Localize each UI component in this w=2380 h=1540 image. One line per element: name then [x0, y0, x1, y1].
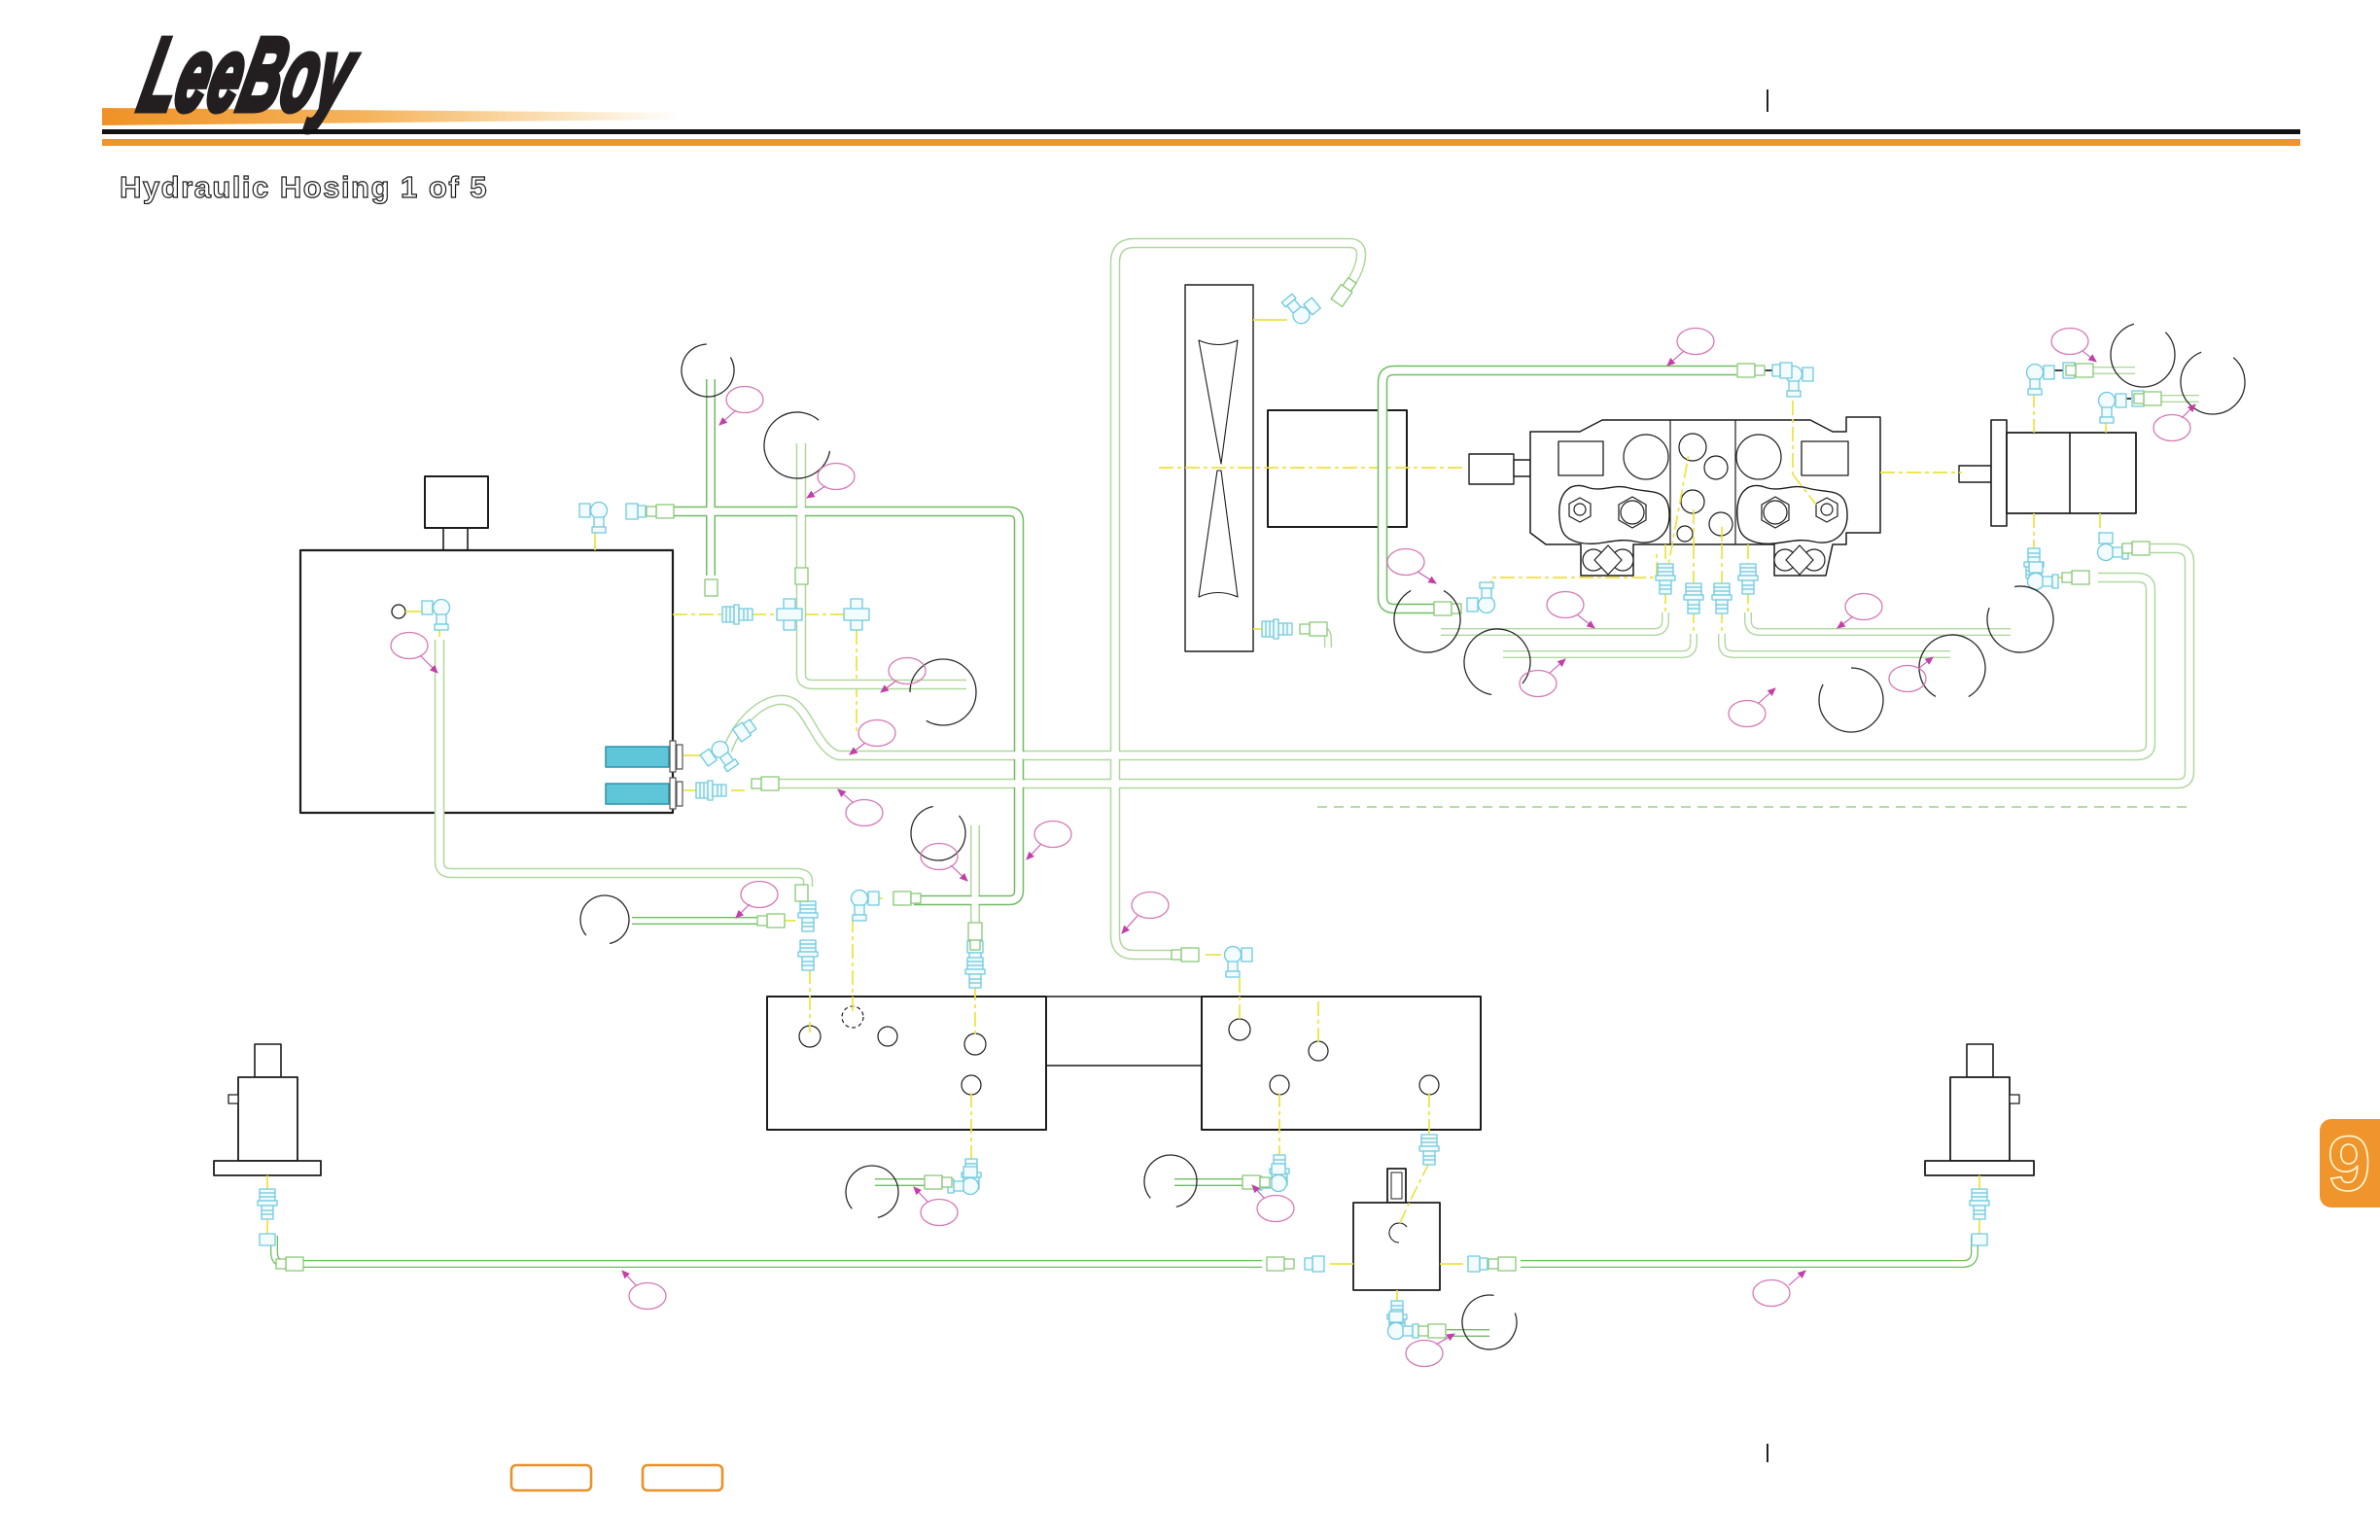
svg-text:9: 9	[2327, 1120, 2371, 1207]
svg-text:Hydraulic Hosing 1 of 5: Hydraulic Hosing 1 of 5	[120, 170, 488, 204]
svg-text:LeeBoy: LeeBoy	[130, 17, 367, 132]
